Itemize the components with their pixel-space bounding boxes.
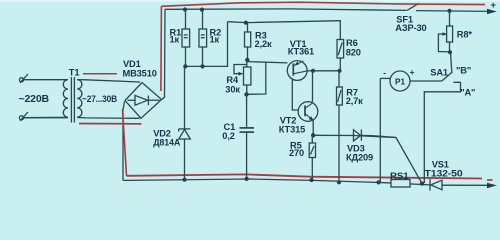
red highlight: minus path vertical xyxy=(123,109,127,176)
svg-text:АЗР-30: АЗР-30 xyxy=(395,23,426,33)
svg-text:2,7к: 2,7к xyxy=(346,96,363,106)
wire: R1/R2 bottom bus to inner rail riser xyxy=(185,22,228,67)
node: R8 top junction xyxy=(447,9,451,13)
diode VD3 xyxy=(354,130,373,142)
wire: VD3 branch xyxy=(313,135,396,137)
bridge VD1 internal diode xyxy=(128,95,160,105)
svg-text:~27...30В: ~27...30В xyxy=(82,94,118,104)
svg-text:1к: 1к xyxy=(210,35,220,45)
terminal: mains input upper pin xyxy=(19,74,68,83)
node: thyristor gate junction on bus xyxy=(420,181,424,185)
transformer T1 secondary winding xyxy=(77,80,82,118)
svg-text:МВ3510: МВ3510 xyxy=(123,68,157,78)
zener diode VD2 xyxy=(179,66,191,179)
wire: VD3 to thyristor gate diagonal xyxy=(372,136,422,184)
svg-text:0,2: 0,2 xyxy=(222,131,234,141)
thyristor VS1 xyxy=(430,179,442,191)
node: R6 bottom / R7 top junction xyxy=(337,69,341,73)
wire: bottom bus right of thyristor xyxy=(442,184,489,186)
arrowhead: - output bottom right xyxy=(487,183,497,189)
bridge rectifier VD1 diamond xyxy=(125,83,162,119)
arrowhead: + output top right xyxy=(487,9,497,15)
transistor VT2 KT315 xyxy=(298,102,318,122)
transformer T1 core xyxy=(71,77,74,123)
wire: collector node to R6/R7 junction xyxy=(313,70,340,72)
node: R3 top junction xyxy=(244,21,248,25)
resistor R6 xyxy=(337,21,344,71)
node: R3 bottom / VT1 emitter junction xyxy=(245,58,249,62)
node: VT1 collector junction xyxy=(311,69,315,73)
transistor VT1 KT361 xyxy=(287,61,307,81)
resistor R1 xyxy=(182,10,190,67)
wire: branch down to R4 bottom loop xyxy=(247,62,266,94)
resistor R5 xyxy=(309,135,315,180)
wire: left-bottom vertical from bridge - vertex down to bottom bus xyxy=(123,102,125,181)
svg-text:"В": "В" xyxy=(456,66,471,76)
node: R8 wiper junction xyxy=(448,50,452,54)
meter P1 xyxy=(380,71,442,183)
wire: secondary bottom to bridge bottom vertex xyxy=(77,117,139,120)
wire: bottom minus bus xyxy=(123,179,430,185)
svg-text:"А": "А" xyxy=(460,88,475,98)
red highlight: top plus bus xyxy=(161,2,485,6)
node: VT2 emitter / R5 / VD3 junction xyxy=(311,133,315,137)
svg-text:1к: 1к xyxy=(170,35,180,45)
wire: VT1 collector to node xyxy=(307,70,313,72)
svg-text:VD1: VD1 xyxy=(123,59,141,69)
node: R4 bottom junction xyxy=(244,92,248,96)
svg-text:30к: 30к xyxy=(225,85,240,95)
svg-text:КТ315: КТ315 xyxy=(279,124,305,134)
node: R1 bottom / VD2 junction xyxy=(183,64,187,68)
wire: node to VT1 emitter xyxy=(247,62,287,63)
wire: VT2 emitter down to node xyxy=(312,120,314,135)
svg-text:Т1: Т1 xyxy=(69,67,80,77)
red highlight: plus path vertical xyxy=(160,6,163,91)
svg-text:Т132-50: Т132-50 xyxy=(425,169,463,179)
capacitor C1 xyxy=(240,94,255,179)
variable resistor R8 xyxy=(438,11,452,52)
svg-text:270: 270 xyxy=(289,148,304,158)
node: VD2 bottom junction xyxy=(182,178,186,182)
resistor R2 xyxy=(199,10,207,67)
resistor R3 xyxy=(245,23,251,60)
node: R2 top junction xyxy=(200,8,204,12)
wire: SA1 contact A loop down xyxy=(424,82,460,183)
node: P1 bottom bus junction xyxy=(376,180,380,184)
wire: left vertical from top bus to bridge + vertex xyxy=(162,9,165,99)
wire: collector node down to VT2 collector xyxy=(312,71,314,102)
svg-text:+: + xyxy=(410,68,415,77)
wire: inner stabilized rail xyxy=(228,21,342,23)
svg-text:Р1: Р1 xyxy=(395,77,405,86)
wire: top positive bus (right segment to output arrow) xyxy=(416,10,489,13)
wire: SA1 contact B up to R8 xyxy=(451,52,452,72)
node: R2 bottom junction xyxy=(200,64,204,68)
svg-text:R8*: R8* xyxy=(457,29,473,39)
shunt RS1 xyxy=(391,180,410,188)
resistor R7 xyxy=(337,71,343,183)
svg-text:-: - xyxy=(383,68,386,77)
wire: secondary top to bridge top vertex xyxy=(77,80,140,82)
svg-text:RS1: RS1 xyxy=(390,171,409,181)
svg-text:+: + xyxy=(491,0,497,10)
svg-text:R4: R4 xyxy=(226,75,239,85)
svg-text:2,2к: 2,2к xyxy=(255,39,272,49)
wire: top positive bus (left segment to SF1) xyxy=(165,9,407,11)
node: C1 bottom junction xyxy=(245,177,249,181)
light scan edge top xyxy=(0,0,500,2)
red minus sign bottom right xyxy=(487,179,493,181)
svg-text:~220В: ~220В xyxy=(19,94,50,105)
switch SA1 arm xyxy=(442,72,453,81)
transformer T1 primary winding xyxy=(24,80,68,118)
svg-text:КД209: КД209 xyxy=(346,152,373,162)
svg-text:Д814А: Д814А xyxy=(153,137,180,147)
red highlight: bottom minus bus xyxy=(127,174,483,178)
node: R5 bottom junction xyxy=(309,178,313,182)
switch SF1 arm xyxy=(407,3,419,10)
red leader line T1 to MB3510 xyxy=(83,73,117,75)
svg-text:820: 820 xyxy=(346,47,361,57)
node: R1 top junction xyxy=(183,7,187,11)
variable resistor R4 xyxy=(234,60,251,94)
wire: VT1 base to VT2 base link xyxy=(292,80,299,111)
node: R7 bottom junction xyxy=(337,180,341,184)
svg-text:SA1: SA1 xyxy=(430,67,448,77)
red highlight: secondary lower AC wire xyxy=(79,123,142,125)
terminal: mains input lower pin xyxy=(19,112,68,121)
svg-text:КТ361: КТ361 xyxy=(288,47,314,57)
